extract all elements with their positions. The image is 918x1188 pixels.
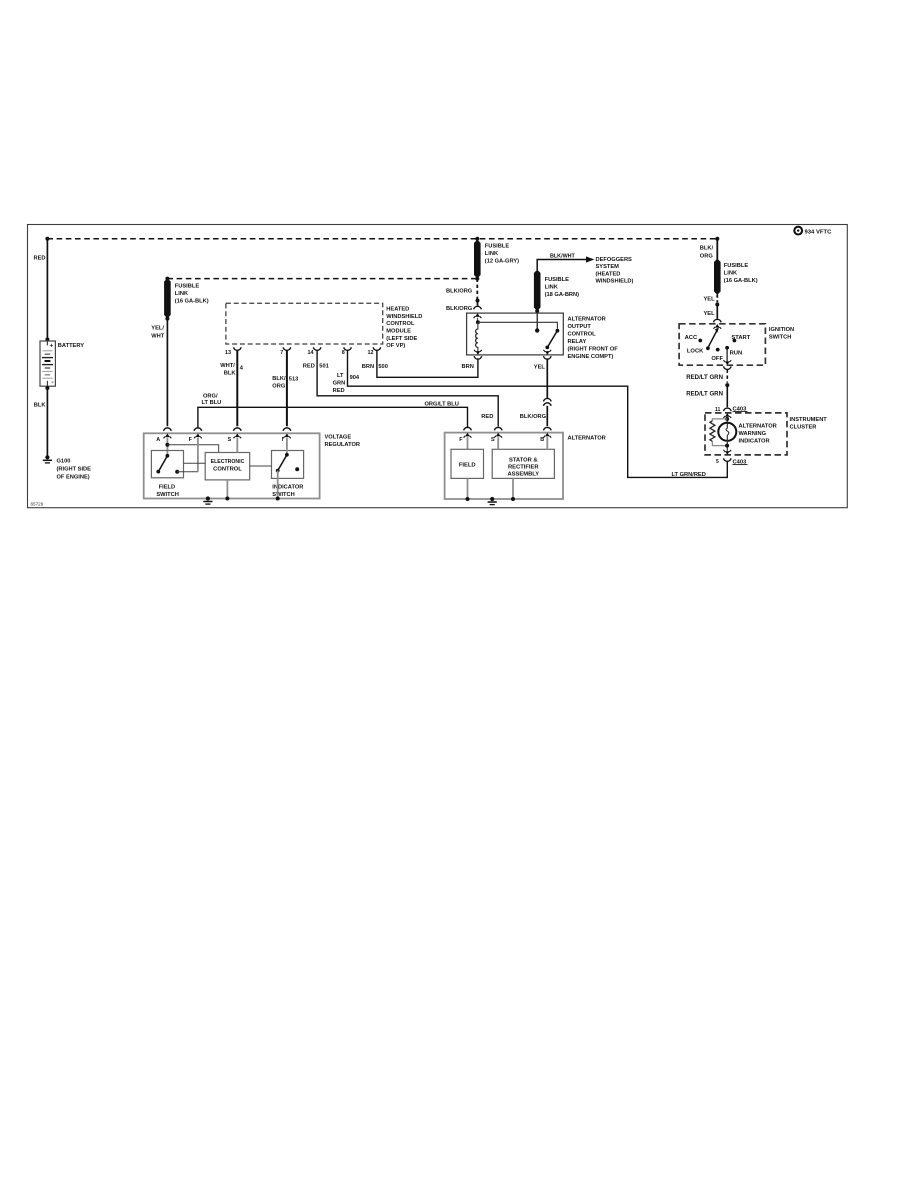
regulator internal wire S (236, 438, 238, 453)
svg-text:501: 501 (319, 364, 329, 370)
svg-text:BLK: BLK (34, 403, 47, 409)
stator and rectifier box (492, 449, 554, 478)
svg-text:RED/LT GRN: RED/LT GRN (686, 374, 723, 381)
svg-text:A: A (156, 437, 160, 443)
lamp alternator warning indicator (718, 423, 736, 441)
alternator pin F (464, 427, 472, 430)
node EC ground junction (225, 497, 229, 501)
alternator box (445, 433, 563, 499)
svg-text:YEL: YEL (534, 365, 546, 371)
svg-text:(RIGHT FRONT OF: (RIGHT FRONT OF (568, 347, 619, 353)
svg-text:LINK: LINK (545, 285, 559, 291)
svg-text:WHT: WHT (151, 333, 164, 339)
svg-text:ORG: ORG (272, 383, 286, 389)
svg-text:+: + (50, 343, 54, 350)
svg-text:YEL/: YEL/ (151, 326, 164, 332)
svg-text:B: B (540, 437, 544, 443)
svg-text:ORG/: ORG/ (203, 394, 218, 400)
instrument cluster box (705, 413, 787, 455)
battery BATTERY (45, 338, 49, 342)
svg-text:904: 904 (350, 375, 360, 381)
node YEL junction (715, 303, 719, 307)
svg-text:WINDSHIELD): WINDSHIELD) (596, 279, 634, 285)
svg-text:OUTPUT: OUTPUT (568, 324, 592, 330)
module heated windshield control module box (226, 303, 383, 344)
svg-text:YEL: YEL (704, 297, 716, 303)
alternator pin S (494, 427, 502, 430)
svg-text:FUSIBLE: FUSIBLE (724, 263, 749, 269)
wire contact to F (177, 471, 198, 473)
svg-text:ACC: ACC (685, 335, 698, 341)
svg-text:FUSIBLE: FUSIBLE (485, 244, 510, 250)
svg-text:SWITCH: SWITCH (272, 492, 294, 498)
svg-text:ALTERNATOR: ALTERNATOR (739, 423, 777, 429)
svg-text:-: - (51, 379, 53, 386)
svg-text:REGULATOR: REGULATOR (325, 442, 361, 448)
regulator ground (206, 496, 210, 500)
wire BLK/WHT to defoggers (537, 260, 586, 271)
diagram border frame (28, 225, 848, 508)
alternator internal wire S (497, 437, 499, 449)
wire link3 to relay contact (536, 311, 538, 331)
svg-text:WHT/: WHT/ (220, 363, 235, 369)
svg-text:YEL: YEL (704, 311, 716, 317)
wire field switch to electronic control (184, 462, 206, 464)
wire electronic control ground leg (226, 480, 228, 499)
alternator internal wire F (467, 437, 469, 449)
svg-text:RED: RED (333, 388, 345, 394)
fusible link F4 16 GA-BLK (714, 259, 721, 295)
svg-text:LINK: LINK (724, 271, 738, 277)
svg-text:S: S (491, 437, 495, 443)
svg-text:SWITCH: SWITCH (156, 492, 178, 498)
field switch box (151, 451, 183, 478)
node link2 bottom (475, 277, 479, 281)
svg-text:513: 513 (289, 377, 299, 383)
regulator internal wire F (197, 438, 199, 472)
indicator switch box (272, 451, 304, 479)
svg-text:CONTROL: CONTROL (568, 332, 597, 338)
regulator pin S (234, 428, 242, 431)
relay pin out BRN (474, 356, 482, 359)
regulator internal wire I (286, 438, 288, 455)
svg-text:ALTERNATOR: ALTERNATOR (568, 435, 606, 441)
wire RED battery feed dashed bus (47, 238, 717, 240)
svg-text:WINDSHIELD: WINDSHIELD (386, 314, 422, 320)
node RED/LT GRN junction (725, 383, 729, 387)
svg-text:934 VFTC: 934 VFTC (805, 229, 833, 235)
svg-text:G100: G100 (57, 459, 71, 465)
svg-text:RED: RED (34, 256, 46, 262)
wire dashed link bus (167, 278, 477, 280)
svg-text:LT GRN/RED: LT GRN/RED (672, 472, 706, 478)
svg-text:(16 GA-BLK): (16 GA-BLK) (724, 278, 758, 284)
wire battery positive (46, 239, 48, 341)
wire relay internal link (478, 322, 558, 329)
wire A to electronic control (167, 445, 218, 453)
svg-text:ELECTRONIC: ELECTRONIC (211, 459, 245, 465)
svg-text:GRN: GRN (333, 381, 346, 387)
node link2 top (475, 237, 479, 241)
svg-text:SWITCH: SWITCH (769, 335, 791, 341)
fusible link F1 16 GA-BLK (164, 278, 171, 318)
svg-text:ORG: ORG (700, 253, 714, 259)
node BLK/ORG junction (476, 299, 480, 303)
fusible link F3 18 GA-BRN (534, 270, 541, 311)
svg-text:500: 500 (378, 364, 388, 370)
svg-text:RUN: RUN (730, 350, 743, 356)
svg-text:8: 8 (342, 350, 345, 356)
cluster pin in (725, 413, 730, 417)
svg-text:LINK: LINK (485, 251, 499, 257)
logo 934 VFTC (794, 227, 802, 235)
alternator internal wire B (546, 437, 548, 449)
svg-text:MODULE: MODULE (386, 329, 411, 335)
fusible link F2 12 GA-GRY (474, 240, 481, 279)
stator ground leg (512, 478, 514, 499)
svg-text:FUSIBLE: FUSIBLE (545, 277, 570, 283)
regulator pin F (194, 428, 202, 431)
svg-text:BRN: BRN (462, 364, 474, 370)
node battery negative (45, 386, 49, 390)
svg-text:14: 14 (308, 350, 314, 356)
svg-text:(HEATED: (HEATED (596, 271, 621, 277)
relay pin in BLK/ORG (475, 313, 480, 317)
cluster resistor branch (712, 419, 727, 421)
relay coil out arrow (476, 351, 481, 355)
svg-text:ENGINE COMPT): ENGINE COMPT) (568, 354, 614, 360)
indicator switch contact (295, 467, 299, 471)
relay K1 alternator output control relay box (467, 313, 564, 355)
svg-text:HEATED: HEATED (386, 307, 409, 313)
relay pin out YEL (544, 356, 552, 359)
relay coil (477, 322, 479, 329)
ignition pin in (715, 324, 720, 328)
svg-text:SYSTEM: SYSTEM (596, 264, 620, 270)
ignition lever (708, 329, 717, 347)
field switch lever (166, 454, 170, 458)
inline connector YEL (544, 398, 552, 401)
field switch contact (175, 470, 179, 474)
regulator voltage regulator box (144, 433, 320, 498)
svg-text:S: S (228, 437, 232, 443)
regulator pin I (283, 428, 291, 431)
regulator pin A (164, 428, 172, 431)
node below link3 (535, 309, 539, 313)
wire BLK/ORG dashed stub (476, 279, 478, 301)
svg-text:ORG/LT BLU: ORG/LT BLU (425, 401, 459, 407)
svg-text:FIELD: FIELD (459, 462, 476, 468)
node bus right (715, 237, 719, 241)
relay switch lever (548, 331, 557, 346)
svg-text:CONTROL: CONTROL (386, 321, 415, 327)
svg-text:IGNITION: IGNITION (769, 327, 794, 333)
svg-text:RED: RED (303, 364, 315, 370)
cluster pin out (725, 451, 730, 455)
svg-text:OFF: OFF (711, 356, 723, 362)
svg-text:(18 GA-BRN): (18 GA-BRN) (545, 292, 580, 298)
svg-text:FIELD: FIELD (159, 485, 175, 491)
node lamp bottom (726, 436, 728, 451)
svg-text:STATOR &: STATOR & (509, 457, 538, 463)
svg-text:65729: 65729 (31, 502, 44, 507)
svg-text:ALTERNATOR: ALTERNATOR (568, 317, 606, 323)
svg-text:OF VP): OF VP) (386, 343, 405, 349)
indicator switch lever (285, 453, 289, 457)
svg-text:VOLTAGE: VOLTAGE (325, 435, 352, 441)
svg-text:BLK/WHT: BLK/WHT (550, 254, 576, 260)
svg-text:FUSIBLE: FUSIBLE (175, 284, 200, 290)
svg-text:RECTIFIER: RECTIFIER (508, 464, 539, 470)
node bus left (45, 237, 49, 241)
wire RUN output (726, 348, 728, 362)
svg-text:BATTERY: BATTERY (58, 343, 84, 349)
wire BLK/ORG into relay (477, 301, 479, 306)
svg-text:LOCK: LOCK (687, 349, 704, 355)
electronic control box (205, 453, 250, 480)
svg-text:CONTROL: CONTROL (213, 466, 242, 472)
svg-text:BLK/ORG: BLK/ORG (520, 414, 547, 420)
svg-text:ASSEMBLY: ASSEMBLY (507, 471, 539, 477)
wire indicator lever down (277, 471, 279, 499)
svg-text:BLK/ORG: BLK/ORG (446, 306, 473, 312)
svg-text:BLK/: BLK/ (272, 376, 286, 382)
node relay contact right (556, 329, 560, 333)
relay lever out arrow (545, 351, 550, 355)
svg-text:RED: RED (481, 414, 493, 420)
field ground leg (467, 478, 469, 499)
svg-text:BRN: BRN (362, 364, 374, 370)
svg-text:(RIGHT SIDE: (RIGHT SIDE (57, 467, 92, 473)
svg-text:OF ENGINE): OF ENGINE) (57, 475, 90, 481)
svg-text:DEFOGGERS: DEFOGGERS (596, 257, 633, 263)
svg-text:RED/LT GRN: RED/LT GRN (686, 390, 723, 397)
svg-text:CLUSTER: CLUSTER (790, 424, 817, 430)
svg-text:7: 7 (280, 350, 283, 356)
svg-text:BLK/: BLK/ (700, 246, 714, 252)
svg-text:(LEFT SIDE: (LEFT SIDE (386, 336, 417, 342)
svg-text:(16 GA-BLK): (16 GA-BLK) (175, 299, 209, 305)
svg-text:(12 GA-GRY): (12 GA-GRY) (485, 259, 519, 265)
alternator ground (490, 497, 494, 501)
svg-text:BLK/ORG: BLK/ORG (446, 289, 473, 295)
alternator pin B (544, 427, 552, 430)
svg-text:11: 11 (715, 407, 721, 413)
node link1 top (165, 277, 169, 281)
node below link1 (165, 317, 169, 321)
svg-text:INSTRUMENT: INSTRUMENT (790, 417, 828, 423)
svg-text:LT BLU: LT BLU (202, 400, 222, 406)
svg-text:INDICATOR: INDICATOR (739, 438, 770, 444)
svg-text:LT: LT (337, 373, 344, 379)
ground G100 (45, 455, 49, 459)
svg-text:12: 12 (368, 350, 374, 356)
svg-text:RELAY: RELAY (568, 339, 587, 345)
ignition switch box (679, 324, 765, 365)
node A junction (165, 443, 169, 447)
svg-text:BLK: BLK (224, 371, 237, 377)
node lamp top (726, 418, 728, 429)
wire electronic control to indicator switch (250, 465, 272, 467)
svg-text:LINK: LINK (175, 291, 189, 297)
node relay contact fixed (535, 328, 539, 332)
svg-text:13: 13 (225, 350, 231, 356)
svg-text:WARNING: WARNING (739, 431, 767, 437)
node IS ground junction (276, 497, 280, 501)
svg-text:5: 5 (716, 459, 719, 465)
node relay coil top (476, 320, 480, 324)
field box (451, 449, 484, 478)
regulator internal wire A (166, 438, 168, 456)
